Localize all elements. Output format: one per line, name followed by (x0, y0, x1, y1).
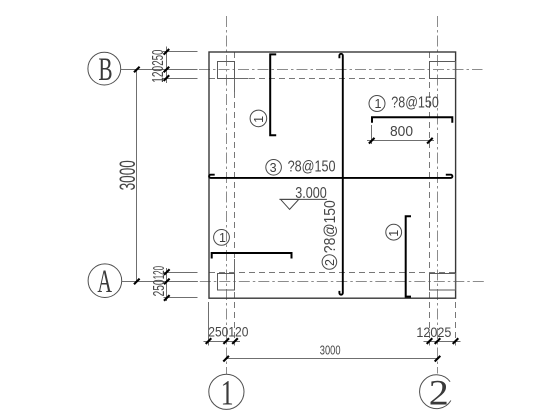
rebar 1 top-right (horizontal, hooks down) (372, 117, 452, 123)
svg-text:250: 250 (150, 49, 167, 66)
axis line 2 (vertical dash-dot) (437, 16, 439, 374)
svg-text:1: 1 (252, 116, 266, 123)
svg-text:1: 1 (221, 373, 234, 413)
annotation 2 ?8@150 vertical (322, 200, 339, 269)
inner hidden line horizontal bottom (209, 272, 456, 274)
rebar 1 top-left (vertical, hooks right) (270, 54, 276, 135)
annotation 3 ?8@150 center (266, 158, 336, 175)
svg-text:250: 250 (151, 279, 168, 296)
annotation 1 ?8@150 top-right (369, 94, 439, 111)
slab outline (209, 52, 456, 298)
svg-text:B: B (98, 52, 112, 88)
rebar 2 (vertical, U-hooks left) (339, 54, 342, 295)
svg-text:120: 120 (150, 66, 167, 83)
svg-text:800: 800 (390, 124, 413, 140)
rebar 1 bottom-left (horizontal, hooks down) (212, 253, 292, 259)
svg-text:250120: 250120 (208, 324, 248, 340)
column top-left (218, 62, 235, 79)
callout circle 1 bottom-right (rotated) (386, 224, 402, 240)
left dimension line 3000 (115, 67, 198, 285)
rebar 3 (horizontal, U-hooks up) (209, 175, 452, 178)
grid bubble B (88, 52, 121, 88)
grid bubble A (88, 264, 122, 300)
svg-text:A: A (97, 264, 112, 300)
svg-text:1: 1 (387, 230, 401, 237)
svg-text:2: 2 (429, 373, 449, 413)
svg-text:12025: 12025 (416, 324, 451, 340)
bottom-left dimension chain 120/250 (151, 266, 198, 301)
hidden line solid stub below column TL (234, 79, 236, 93)
inner hidden line vertical right (429, 52, 431, 298)
svg-text:?8@150: ?8@150 (322, 200, 339, 253)
column top-right (430, 62, 456, 79)
inner hidden line vertical left (234, 52, 236, 298)
svg-text:3000: 3000 (115, 160, 140, 190)
callout circle 1 bottom-left (214, 230, 230, 246)
axis line 1 (vertical dash-dot) (226, 16, 228, 374)
bottom main dimension 3000 (223, 343, 440, 362)
column bottom-right (430, 274, 456, 291)
axis line A (horizontal dash-dot) (122, 281, 484, 283)
dimension 800 (367, 124, 434, 144)
top-left dimension chain 250/120 (150, 47, 197, 84)
svg-text:1: 1 (375, 97, 382, 111)
svg-text:2: 2 (323, 259, 337, 266)
hidden line solid stub right of column TL (235, 78, 249, 80)
grid bubble 1 (209, 373, 244, 413)
hidden line solid stub above column BL (234, 259, 236, 273)
svg-text:120: 120 (151, 266, 168, 280)
rebar 1 bottom-right (vertical, hooks right) (406, 216, 411, 296)
column bottom-left (218, 274, 235, 291)
inner hidden line horizontal top (209, 78, 456, 80)
axis line B (horizontal dash-dot) (121, 69, 483, 71)
level mark 3.000 (279, 185, 327, 210)
svg-text:3: 3 (270, 161, 277, 175)
svg-text:1: 1 (219, 231, 226, 245)
svg-text:?8@150: ?8@150 (391, 94, 439, 111)
bottom dimension chain 250 120 (below plan, left) (204, 302, 249, 346)
svg-text:?8@150: ?8@150 (288, 158, 336, 175)
svg-text:3000: 3000 (320, 343, 341, 358)
bottom dimension chain 120 25 (below plan, right) (416, 302, 460, 346)
callout circle 1 top-left (rotated) (250, 110, 267, 127)
grid bubble 2 (420, 373, 451, 413)
